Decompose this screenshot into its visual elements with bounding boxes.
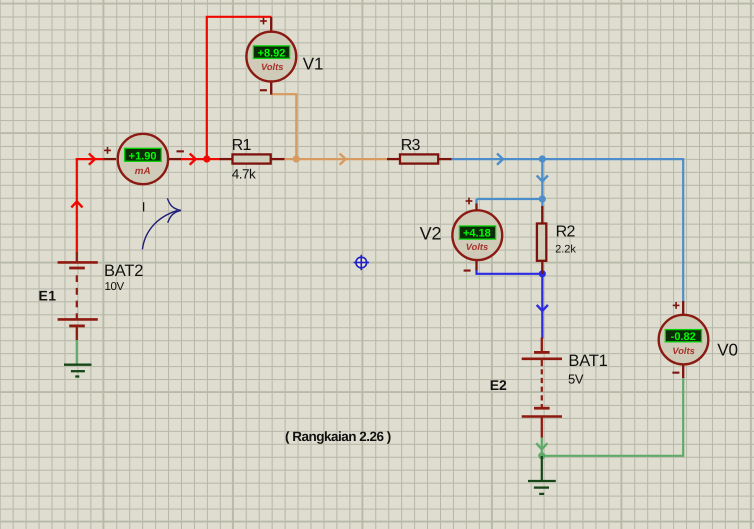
wire red vertical BAT2 to node A [76,158,78,253]
wire steelblue J3 down to J4 [541,159,543,199]
svg-text:BAT1: BAT1 [568,352,607,370]
BAT2 label [104,262,143,280]
wire tan R1 to J2 [284,158,297,160]
svg-text:5V: 5V [568,372,584,387]
junction node J1 red dot [203,155,210,162]
wire steelblue R3 to V0 top corner [451,159,684,301]
current arrow right on tan wire [340,154,346,165]
svg-text:10V: 10V [105,281,125,293]
node label E1 [39,288,57,304]
current arrow down green [536,443,547,449]
wire steelblue J4 to R2 [477,199,543,208]
voltmeter V0 [659,301,709,378]
wire steelblue J4 to V2 plus [477,198,543,200]
svg-text:4.7k: 4.7k [232,166,256,181]
R3 label [401,137,421,154]
V1 plus sign [260,18,267,25]
V0 plus sign [673,302,680,309]
svg-text:+1.90: +1.90 [129,150,157,162]
svg-text:-0.82: -0.82 [671,331,696,343]
svg-text:Volts: Volts [466,242,488,252]
current annotation curved arrow [142,198,181,249]
current arrow down J3 to J4 [537,175,548,181]
svg-text:R3: R3 [401,137,421,154]
V1 minus sign [260,89,267,91]
battery BAT2 [58,252,98,341]
svg-text:BAT2: BAT2 [104,262,143,280]
svg-text:mA: mA [135,166,151,177]
ground under BAT1 [528,481,556,494]
BAT1 label [568,352,607,370]
svg-text:I: I [142,200,146,215]
wire red horizontal node A to ammeter [76,158,104,160]
ammeter minus sign [177,150,184,152]
V0 label [717,341,738,360]
wire red J1 up and over to V1 plus [207,17,271,159]
junction node J4 steelblue dot [539,195,546,202]
wire green BAT2 to ground [76,340,78,364]
R2 value 2.2k [555,244,576,256]
V1 label [303,55,324,74]
resistor R3 [387,154,452,163]
wire green J6 to V0 minus [542,377,683,456]
resistor R1 [220,154,285,163]
svg-text:R1: R1 [232,137,252,154]
current arrow right after ammeter [190,154,196,165]
svg-text:E1: E1 [39,288,57,304]
svg-text:( Rangkaian 2.26 ): ( Rangkaian 2.26 ) [285,429,391,444]
current arrow up on BAT2 wire [71,201,82,207]
wire tan J2 to R3 [297,158,389,160]
V2 label [420,224,442,244]
BAT2 value 10V [105,281,125,293]
V2 plus sign [466,198,473,205]
svg-text:V2: V2 [420,224,442,244]
R2 label [556,224,576,241]
wire brightblue V2 minus to J5 [477,270,543,274]
svg-text:V1: V1 [303,55,324,74]
ammeter plus sign [104,147,111,154]
node label E2 [490,377,507,393]
svg-text:+4.18: +4.18 [463,227,491,239]
svg-text:Volts: Volts [261,62,283,72]
svg-text:+8.92: +8.92 [258,47,286,59]
ground under BAT2 [64,365,92,377]
current arrow right on steelblue wire [497,154,503,165]
R1 value 4.7k [232,166,256,181]
R1 label [232,137,252,154]
voltmeter V1 [246,17,296,95]
svg-text:Volts: Volts [672,346,694,356]
junction node J6 green dot [538,452,545,459]
svg-text:E2: E2 [490,377,507,393]
wire tan V1 minus to node J2 [272,94,297,159]
wire brightblue J5 down to BAT1 [541,274,543,339]
BAT1 value 5V [568,372,584,387]
junction node J3 steelblue dot [539,155,546,162]
V2 minus sign [464,270,471,272]
battery BAT1 [522,338,562,438]
origin marker [354,255,369,270]
junction node J2 tan dot [293,155,300,162]
caption ( Rangkaian 2.26 ) [285,429,391,444]
wire red ammeter to node J1 [181,158,208,160]
current arrow down to BAT1 [537,305,548,311]
ammeter A1 [104,134,182,184]
voltmeter V2 [452,204,502,271]
current arrow right before ammeter [89,154,95,165]
current annotation label I [142,200,146,215]
wire red J1 to R1 [207,158,221,160]
resistor R2 vertical [537,206,546,274]
wire green BAT1 to node J6 [541,437,543,456]
svg-text:R2: R2 [556,224,576,241]
svg-text:2.2k: 2.2k [555,244,576,256]
V0 minus sign [672,372,679,374]
svg-text:V0: V0 [717,341,738,360]
junction node J5 brightblue dot [539,270,546,277]
ground stub below J6 [541,456,543,480]
